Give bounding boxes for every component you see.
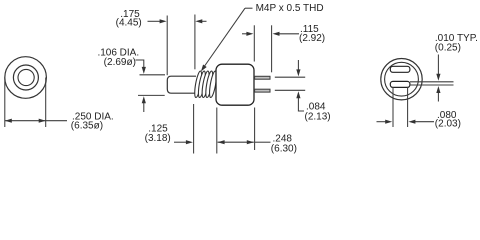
dimension .115 left arrow [242,32,253,36]
dimension .175 extension line at thread start [194,15,196,70]
svg-text:(2.03): (2.03) [435,119,461,130]
extension line body right [254,108,256,151]
dimension .084 down arrow [296,60,300,76]
extension line body left [216,108,218,154]
dimension text .106 DIA. (2.69) [97,47,139,68]
dimension .080 left arrow [377,120,393,124]
switch body [216,64,254,105]
svg-text:(2.92): (2.92) [299,33,325,44]
dimension .080 extension line right [407,87,409,127]
terminal slot 2 [390,81,410,87]
rear view outer circle [381,58,422,99]
thread callout text M4P x 0.5 THD [256,3,324,14]
dimension .106 leader elbow and down arrow [136,60,146,74]
pin 2 [255,89,270,92]
rear view inner circle [385,62,419,96]
dimension .010 witness line bottom [410,84,454,86]
dimension .115 extension line pin end [271,25,273,72]
front view inner circle [18,69,34,85]
front view middle circle [13,65,38,90]
svg-text:(3.18): (3.18) [145,133,171,144]
terminal slot 1 [390,66,410,72]
dimension .106 top witness line [140,74,166,76]
pin 2 witness line [275,89,305,91]
dimension .106 up arrow [142,96,146,112]
dimension .250 DIA. extension line left [4,78,6,128]
dimension .248 line with arrows [218,140,271,144]
svg-text:(0.25): (0.25) [435,43,461,54]
dimension .250 DIA. extension line right [45,78,47,128]
dimension .080 right arrow and leader [408,120,434,124]
pin 1 [255,76,270,79]
dimension .010 down arrow [436,55,440,81]
plunger [167,76,196,93]
dimension text .248 (6.30) [271,134,297,155]
dimension text .010 TYP. (0.25) [435,33,478,54]
dimension text .250 DIA. (6.35) [71,111,114,131]
dimension .250 DIA. line with arrows [5,119,67,123]
dimension text .175 (4.45) [116,9,142,29]
dimension .010 up arrow [436,86,440,102]
dimension text .125 (3.18) [145,124,171,145]
dimension .125 arrow [174,140,193,144]
dimension .106 bottom witness line [138,94,165,96]
svg-text:(2.69ø): (2.69ø) [104,57,136,68]
svg-text:(6.35ø): (6.35ø) [71,121,103,132]
dimension .175 right arrow [195,19,206,23]
dimension .175 extension line at plunger tip [166,16,168,76]
svg-text:(6.30): (6.30) [271,143,297,154]
dimension .115 extension line body right [253,25,255,61]
dimension .010 witness line top [410,81,454,83]
dimension text .080 (2.03) [435,110,461,130]
pin 1 witness line [275,76,305,78]
front view outer circle [5,57,47,99]
svg-text:(2.13): (2.13) [305,111,331,122]
dimension text .115 (2.92) [299,24,325,44]
svg-text:(4.45): (4.45) [116,18,142,29]
extension line thread end [193,104,195,154]
svg-text:M4P x 0.5 THD: M4P x 0.5 THD [256,3,324,14]
dimension .084 up arrow with elbow [296,91,304,111]
dimension .175 left arrow [148,19,167,23]
M4P thread callout leader [201,8,253,71]
dimension text .084 (2.13) [305,102,331,123]
dimension .080 extension line left [392,87,394,127]
dimension .115 right arrow and leader [273,32,300,36]
thread coil [193,71,218,98]
